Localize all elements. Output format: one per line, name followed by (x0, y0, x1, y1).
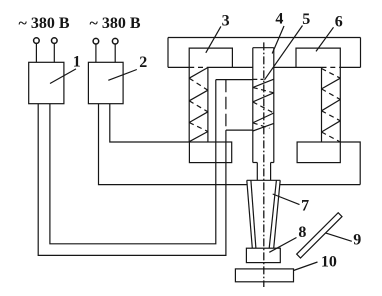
svg-text:2: 2 (139, 54, 147, 71)
svg-text:~ 380 В: ~ 380 В (90, 15, 141, 32)
wire: lower bus continuation behind funnel (280, 184, 360, 186)
leader line 9 (326, 233, 352, 241)
svg-text:8: 8 (298, 224, 306, 241)
central channel column 4 (253, 48, 274, 163)
wire: right coil to bus (340, 142, 360, 185)
central induction winding zigzag (253, 79, 274, 131)
right pole piece (297, 142, 340, 163)
pole block 6 (296, 48, 340, 67)
left pole piece (189, 142, 231, 163)
leader line 6 (316, 27, 334, 51)
leader line 5 (265, 26, 303, 80)
power source 2 (box 2) (88, 62, 123, 103)
connector B: wire to bottom of induction winding (226, 129, 253, 131)
connector A: wire to top of induction winding (216, 79, 253, 81)
funnel 7 (247, 180, 280, 248)
pole block 3 (189, 48, 232, 67)
leader line 1 (50, 69, 76, 84)
container box 10 (235, 269, 293, 282)
svg-text:1: 1 (73, 53, 81, 70)
svg-text:~ 380 В: ~ 380 В (19, 15, 70, 32)
wire A: source 1 right terminal loop (50, 80, 216, 244)
right coil winding zigzag (322, 69, 341, 143)
power source 1 (box 1) (29, 62, 64, 103)
svg-text:5: 5 (302, 11, 310, 28)
leader line 10 (294, 262, 318, 271)
leader line 2 (108, 70, 137, 81)
wire B: source 1 left terminal loop (38, 104, 226, 256)
leader line 3 (206, 26, 221, 52)
leader line 8 (269, 238, 296, 253)
svg-text:10: 10 (321, 253, 337, 270)
central column neck (257, 163, 270, 181)
wire: source 2 left terminal lower bus (99, 104, 247, 185)
power source 2 terminals (93, 38, 118, 62)
power source 1 terminals (34, 38, 57, 63)
mold box 8 (246, 248, 280, 262)
wire B hidden segment (225, 80, 227, 130)
svg-text:3: 3 (222, 12, 230, 29)
right electromagnet coil body (322, 67, 341, 142)
left coil winding zigzag (189, 68, 208, 142)
center axis 5 dash-dot (263, 42, 265, 287)
leader line 7 (273, 194, 300, 205)
svg-text:9: 9 (353, 231, 361, 248)
svg-text:6: 6 (335, 13, 343, 30)
wire: source 2 right terminal to left coil (110, 104, 189, 142)
leader line 4 (272, 26, 284, 54)
left electromagnet coil body (189, 67, 208, 142)
magnetic yoke outer frame (168, 38, 361, 68)
svg-text:7: 7 (301, 198, 309, 215)
chute bar 9 (297, 213, 342, 258)
svg-text:4: 4 (275, 11, 283, 28)
